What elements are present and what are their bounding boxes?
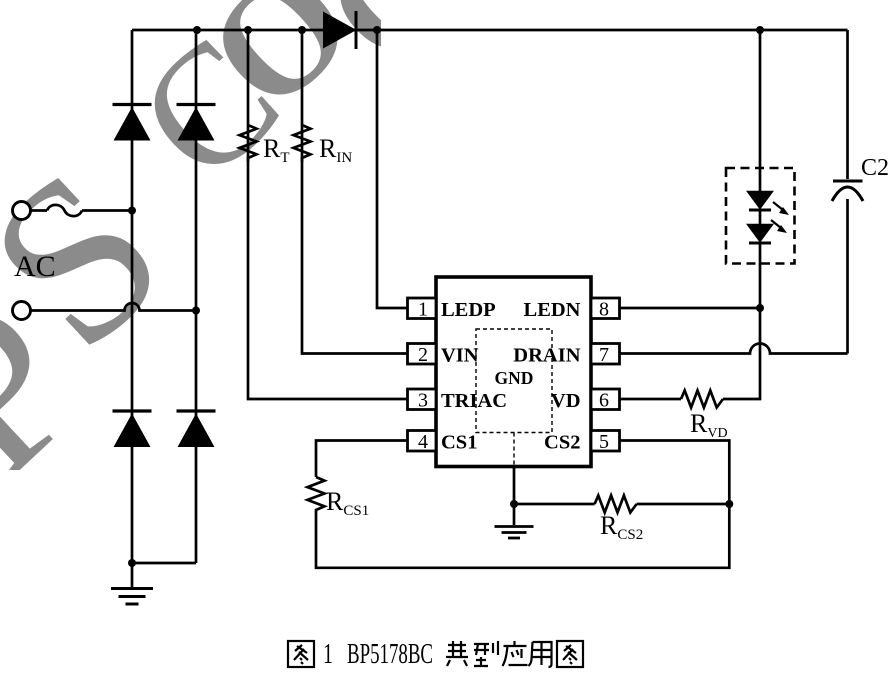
svg-text:VD: VD	[551, 390, 581, 412]
svg-text:CS2: CS2	[544, 432, 580, 454]
svg-text:1: 1	[323, 638, 333, 670]
node top x248	[244, 26, 252, 34]
resistor RCS2	[595, 496, 637, 513]
LED arrow 1	[773, 202, 789, 215]
pin 5 box	[591, 431, 620, 452]
LED dashed box	[726, 168, 795, 264]
pin 4 box	[408, 431, 437, 452]
wire AC1 lead	[31, 209, 48, 212]
node GND	[510, 500, 518, 508]
GND dashed box	[476, 329, 552, 433]
pin numbers	[418, 299, 609, 454]
node AC2	[192, 307, 200, 315]
svg-text:CS1: CS1	[441, 432, 477, 454]
char dian	[446, 641, 468, 666]
char tu1	[288, 641, 314, 667]
diode D1 on top rail	[323, 11, 357, 49]
node top x760	[756, 26, 764, 34]
pin 7 box	[591, 344, 620, 365]
wire right rail x=847.5 to C2	[846, 30, 849, 179]
svg-text:4: 4	[418, 431, 428, 453]
svg-text:AC: AC	[14, 250, 56, 283]
svg-text:2: 2	[418, 344, 428, 366]
wire RCS1 bottom loop	[316, 441, 729, 568]
svg-text:GND: GND	[495, 368, 534, 388]
caption	[323, 638, 433, 670]
node top x197	[193, 26, 201, 34]
AC terminal 2	[13, 302, 31, 320]
wire C2 bottom to pin7 row	[846, 199, 849, 354]
svg-text:1: 1	[418, 299, 428, 321]
wire LED bottom to pin6 corner	[723, 243, 760, 399]
caption CJK hand-drawn	[288, 641, 583, 667]
bridge diode top-right	[177, 105, 216, 141]
svg-text:7: 7	[599, 344, 609, 366]
char yong	[529, 642, 552, 667]
fuse F1	[47, 205, 82, 216]
wire pin7 with hop	[620, 344, 848, 354]
wire LEDP drop + to pin1	[377, 30, 408, 308]
watermark BPS CO	[0, 0, 491, 523]
bridge diode top-left	[113, 105, 152, 141]
resistor RIN	[294, 125, 311, 162]
resistor RCS1	[308, 477, 325, 520]
svg-text:BP5178BC: BP5178BC	[347, 638, 433, 670]
GND dashed stub	[513, 433, 515, 467]
wire left bridge leg x=132	[131, 30, 134, 563]
bridge diode bottom-right	[177, 411, 216, 447]
node top x377	[373, 26, 381, 34]
node bridge bottom	[128, 559, 136, 567]
LED D3	[748, 225, 773, 244]
char xing	[474, 641, 498, 666]
pin names	[441, 299, 581, 454]
LED arrow 2	[771, 220, 787, 233]
pin 3 box	[408, 389, 437, 410]
wire RT vertical + to pin3	[248, 30, 408, 399]
wire GND2 stub	[513, 504, 516, 525]
IC U1 body	[436, 277, 591, 467]
AC terminal 1	[13, 202, 31, 220]
wire IC GND solid drop	[513, 467, 516, 505]
wire LED mid segment	[759, 211, 762, 224]
svg-text:DRAIN: DRAIN	[513, 345, 580, 367]
wire top rail	[132, 29, 848, 32]
wire LED string vertical x=760 top	[759, 30, 762, 191]
char ying	[503, 641, 528, 666]
svg-text:LEDN: LEDN	[524, 299, 581, 321]
node top x302	[298, 26, 306, 34]
bridge diode bottom-left	[113, 411, 152, 447]
wire AC1 to bridge	[82, 209, 132, 212]
svg-text:8: 8	[599, 299, 609, 321]
wire pin6 stub	[620, 398, 682, 401]
resistor RT	[240, 125, 257, 162]
svg-text:6: 6	[599, 390, 609, 412]
svg-text:3: 3	[418, 390, 428, 412]
ground G1 (bridge)	[111, 589, 153, 605]
node RCS2 right	[725, 500, 733, 508]
node LEDN	[756, 304, 764, 312]
wire right bridge leg x=196	[195, 30, 198, 563]
pin 6 box	[591, 389, 620, 410]
node AC1	[128, 207, 136, 215]
wire pin8 to LED node	[620, 307, 761, 310]
svg-text:LEDP: LEDP	[441, 299, 496, 321]
svg-text:C2: C2	[861, 155, 889, 181]
svg-text:VIN: VIN	[441, 345, 479, 367]
wire RIN vertical + to pin2	[302, 30, 408, 354]
char tu2	[557, 641, 583, 667]
wire AC2 with hop over x132	[31, 303, 197, 311]
svg-text:TRIAC: TRIAC	[441, 390, 507, 412]
pin 2 box	[408, 344, 437, 365]
wire GND node to RCS2	[514, 503, 595, 506]
wire bridge bottom	[132, 562, 196, 565]
wire RCS2 right to node	[637, 503, 730, 506]
pin 1 box	[408, 298, 437, 319]
LED D2	[748, 192, 773, 211]
capacitor C2	[832, 181, 863, 201]
svg-text:5: 5	[599, 431, 609, 453]
resistor RVD	[681, 391, 723, 408]
wire GND1 stub	[131, 563, 134, 587]
wire pin4 to RCS1 loop	[316, 441, 408, 478]
ground G2 (IC)	[495, 527, 534, 539]
pin 8 box	[591, 298, 620, 319]
